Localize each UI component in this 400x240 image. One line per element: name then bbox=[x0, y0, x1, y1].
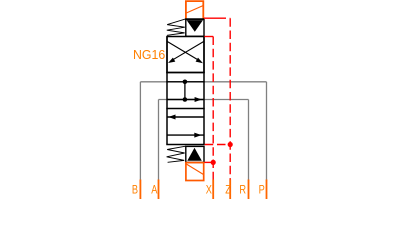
main valve middle boundary bbox=[166, 108, 204, 110]
spring (upper, left of poppet box) bbox=[167, 19, 186, 35]
wire: port A vertical drop bbox=[158, 100, 160, 181]
main valve body (left vertical edge) bbox=[166, 37, 168, 145]
main valve bottom boundary bbox=[166, 144, 204, 146]
wire: gray line port B to port P (passes behind main valve) bbox=[140, 81, 266, 83]
svg-text:P: P bbox=[259, 183, 265, 197]
wire: red pilot line Z branch to valve (y=144.5) bbox=[205, 144, 231, 146]
solenoid Y2 (bottom, orange box with diagonal) bbox=[186, 163, 204, 181]
svg-text:R: R bbox=[239, 183, 246, 197]
port tick Z bbox=[229, 180, 231, 200]
svg-text:Z: Z bbox=[225, 183, 231, 197]
flow arrow right (y=99.5) bbox=[167, 99, 204, 101]
check valve box (upper poppet stage) bbox=[186, 20, 204, 37]
svg-text:X: X bbox=[206, 183, 213, 197]
flow arrow left (y=117) bbox=[167, 116, 204, 118]
main valve body (right vertical edge) bbox=[203, 37, 205, 145]
port tick X bbox=[212, 180, 214, 200]
wire: red pilot line X vertical bbox=[212, 37, 214, 181]
poppet triangle (points up) bbox=[187, 148, 202, 161]
node junction dot on top boundary bbox=[183, 80, 188, 85]
solenoid Y1 (top, orange box with diagonal) bbox=[186, 1, 203, 19]
flow arrow right (y=135.1) bbox=[167, 134, 204, 136]
port tick B bbox=[139, 180, 141, 200]
pilot valve bottom boundary bbox=[166, 72, 205, 74]
flow path arrow (top-left to bottom-right) bbox=[167, 42, 199, 61]
flow path arrow (top-right to bottom-left) bbox=[171, 42, 204, 61]
node: red junction dot Z bbox=[228, 142, 233, 147]
wire: red pilot line Z (top horizontal from solenoid) bbox=[204, 17, 230, 19]
wire: gray line port A to port R (passes behind main valve) bbox=[159, 99, 249, 101]
black bottom bar of solenoid Y1 / top of poppet box bbox=[185, 18, 204, 20]
port tick A bbox=[158, 180, 160, 200]
wire: port P vertical drop bbox=[266, 82, 268, 181]
svg-text:A: A bbox=[151, 183, 158, 197]
main valve top boundary bbox=[166, 81, 204, 83]
wire: port R vertical drop bbox=[248, 100, 250, 181]
node: red junction dot X bbox=[211, 160, 216, 165]
wire: red pilot line Z vertical bbox=[229, 18, 231, 180]
svg-text:B: B bbox=[132, 183, 138, 197]
wire: red pilot line X branch to lower stage (y=162.4) bbox=[204, 161, 213, 163]
check valve box (lower poppet stage) bbox=[186, 146, 204, 162]
svg-text:NG16: NG16 bbox=[133, 48, 165, 62]
wire: port B vertical drop bbox=[139, 82, 141, 181]
wire: internal vertical link bbox=[184, 82, 186, 100]
node junction dot on A line bbox=[183, 97, 188, 102]
port tick R bbox=[248, 180, 250, 200]
port tick P bbox=[266, 180, 268, 200]
poppet triangle (points down) bbox=[187, 20, 203, 32]
spring (lower, left of lower poppet box) bbox=[167, 146, 186, 162]
wire: red pilot line X (short horizontal at y=36.5) bbox=[204, 36, 213, 38]
pilot valve box with crossed flow arrows bbox=[167, 37, 204, 73]
